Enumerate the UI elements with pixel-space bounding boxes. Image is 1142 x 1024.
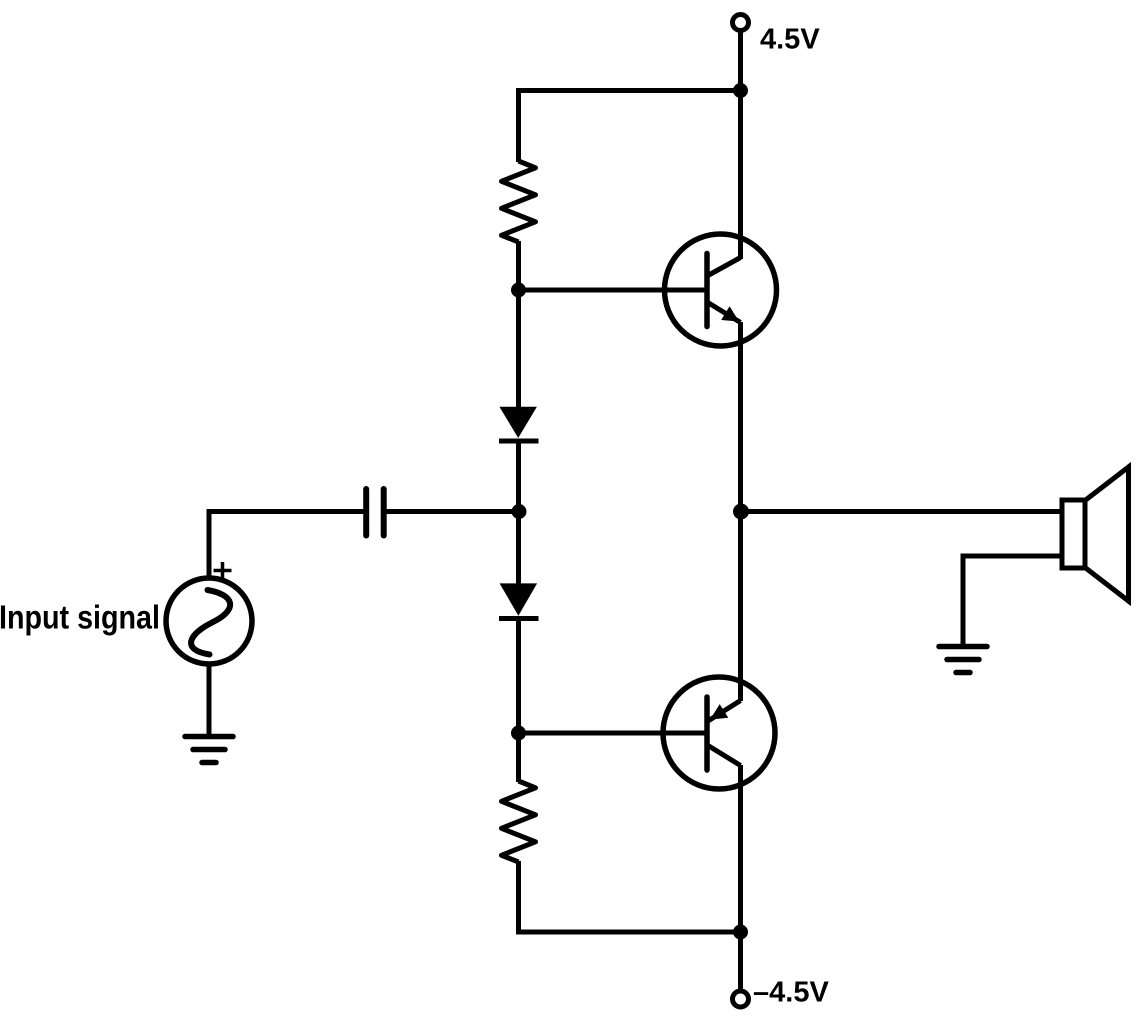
- svg-text:4.5V: 4.5V: [760, 24, 820, 56]
- wire: base of Q2: [519, 731, 708, 736]
- node: output junction: [733, 504, 749, 520]
- wire: base of Q1: [519, 288, 708, 293]
- wire: Q2 collector to bottom rail: [738, 765, 743, 932]
- source V1 (AC input): [166, 578, 252, 664]
- wire: capacitor to input node: [384, 509, 519, 514]
- wire: D2 to Q2 base node: [516, 619, 521, 736]
- wire: Q2 base node to R2: [516, 733, 521, 782]
- ground (input): [185, 737, 233, 763]
- wire: Q1 emitter to output node: [738, 322, 743, 512]
- speaker LS1: [1062, 467, 1129, 601]
- diode D2: [499, 583, 539, 618]
- node: bottom rail junction: [733, 925, 748, 940]
- wire: input node to D2: [516, 512, 521, 586]
- ground (speaker): [939, 647, 987, 673]
- wire: source to capacitor: [209, 512, 366, 580]
- power terminal -4.5V: [733, 991, 749, 1007]
- plus sign: [214, 562, 232, 579]
- transistor Q1 (NPN): [665, 234, 777, 346]
- node: top rail junction: [733, 83, 748, 98]
- wire: D1 to input node: [516, 441, 521, 513]
- wire: top rail horizontal: [519, 91, 741, 163]
- wire: bottom rail junction to -4.5V terminal: [738, 932, 743, 990]
- diode D1: [499, 407, 539, 441]
- wire: speaker return to ground: [963, 556, 1062, 645]
- wire: Q1 collector to top rail: [738, 91, 743, 260]
- capacitor C1: [366, 489, 384, 536]
- resistor R1: [502, 161, 536, 242]
- wire: R1 to Q1 base node: [516, 241, 521, 292]
- wire: output node to Q2 emitter: [738, 512, 743, 702]
- resistor R2: [502, 781, 536, 862]
- wire: output to speaker: [741, 509, 1062, 514]
- wire: terminal to top-rail junction: [738, 31, 743, 91]
- transistor Q2 (PNP): [663, 677, 775, 789]
- svg-text:Input signal: Input signal: [0, 599, 160, 636]
- wire: Q1 base node to D1: [516, 290, 521, 408]
- node: Q1 base junction: [511, 283, 526, 298]
- wire: R2 to bottom rail: [519, 861, 741, 932]
- power terminal +4.5V: [733, 15, 749, 31]
- wire: source to ground: [207, 664, 212, 737]
- svg-text:–4.5V: –4.5V: [753, 977, 829, 1009]
- node: input junction: [512, 504, 527, 519]
- node: Q2 base junction: [511, 726, 526, 741]
